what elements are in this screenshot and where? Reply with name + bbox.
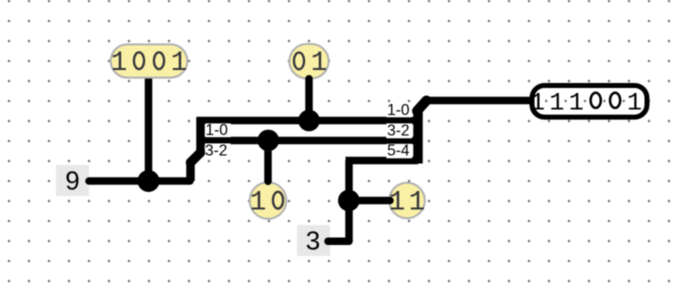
probe value 1001	[111, 44, 188, 78]
svg-text:3-2: 3-2	[205, 142, 227, 159]
wire pin3 vertical	[345, 161, 353, 242]
input pin 9	[56, 165, 89, 196]
label 3-2 right	[386, 123, 412, 140]
splitter S2 spine	[413, 108, 423, 164]
input pin 3	[297, 225, 330, 256]
svg-text:1: 1	[250, 187, 267, 218]
svg-text:1: 1	[311, 48, 328, 79]
splitter S1 stub	[186, 163, 195, 182]
probe value 01	[289, 44, 328, 83]
svg-text:1: 1	[409, 187, 426, 218]
label 1-0 left	[205, 122, 231, 139]
splitter S1 spine	[196, 117, 205, 155]
svg-text:1: 1	[569, 88, 584, 117]
output pin 111001	[530, 86, 647, 118]
svg-text:1: 1	[111, 48, 128, 79]
wire junction to probe11	[349, 197, 389, 205]
svg-text:5-4: 5-4	[387, 143, 410, 160]
wire bus 5-4	[346, 157, 419, 165]
wire probe10 drop	[264, 141, 272, 182]
svg-text:9: 9	[65, 166, 79, 196]
splitter S2 diagonal	[417, 101, 427, 112]
junction J1	[138, 170, 160, 192]
wire bus 3-2	[197, 137, 418, 145]
junction J2	[298, 110, 320, 132]
junction J3	[258, 130, 280, 152]
label 5-4 right	[386, 143, 412, 160]
label 3-2 left	[205, 142, 231, 159]
wire probe01 drop	[305, 78, 313, 121]
svg-text:1: 1	[627, 88, 642, 117]
wire bus 1-0	[197, 117, 418, 125]
svg-text:3: 3	[306, 226, 320, 256]
svg-text:3-2: 3-2	[387, 123, 409, 140]
svg-text:1: 1	[171, 48, 188, 79]
probe value 10	[250, 178, 287, 219]
wire pin9 to splitter S1	[89, 177, 190, 185]
wire probe1001 drop	[145, 77, 153, 181]
junction J4	[338, 190, 360, 212]
svg-text:1: 1	[549, 88, 564, 117]
probe value 11	[386, 183, 425, 219]
svg-text:1: 1	[530, 88, 545, 117]
splitter S1 diagonal	[191, 153, 201, 163]
label 1-0 right	[386, 102, 412, 119]
svg-text:1-0: 1-0	[387, 102, 410, 119]
wire S2 to output	[425, 97, 531, 105]
svg-text:1: 1	[389, 187, 406, 218]
wire pin3 stub	[328, 238, 349, 246]
svg-text:1-0: 1-0	[206, 122, 229, 139]
